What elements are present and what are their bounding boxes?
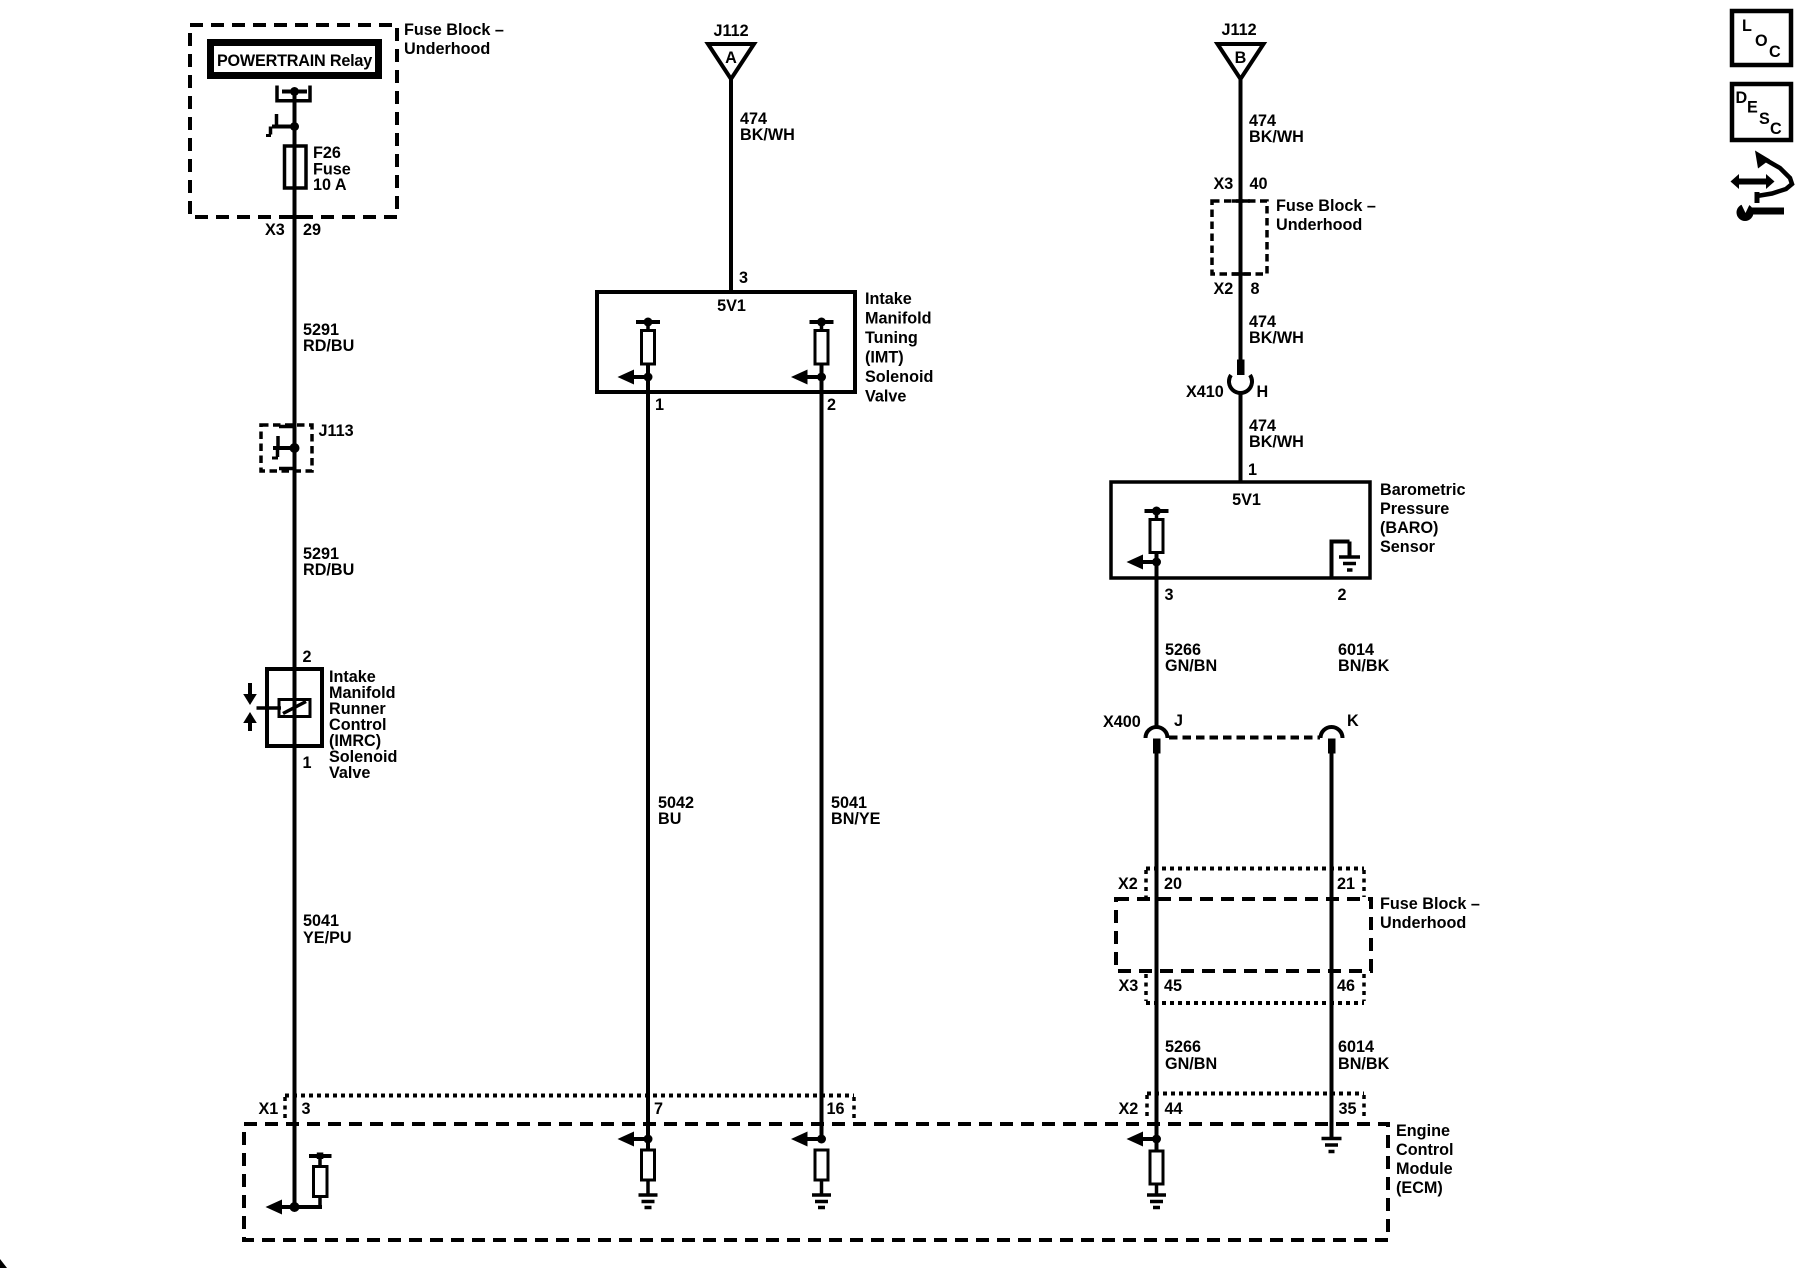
ECM pin3 resistor lower stub [318, 1197, 322, 1208]
svg-text:X2: X2 [1214, 280, 1234, 298]
svg-text:BN/YE: BN/YE [831, 810, 881, 828]
dotted stub ECM left row left [283, 1097, 287, 1120]
svg-text:1: 1 [1248, 461, 1257, 479]
svg-text:L: L [1742, 17, 1752, 35]
fuse block underhood dashed box (right small) [1212, 201, 1267, 274]
ECM pin3 pullup T-bar [309, 1153, 332, 1169]
ECM pin44 signal arrow [1127, 1132, 1162, 1147]
wire 474 BK/WH column A [729, 79, 733, 292]
svg-text:X3: X3 [1214, 175, 1234, 193]
IMT right internal supply T-bar [810, 318, 834, 333]
IMT left internal supply T-bar [636, 318, 660, 333]
svg-text:1: 1 [655, 396, 664, 414]
svg-text:16: 16 [827, 1100, 845, 1118]
dotted stub right upper [1362, 870, 1366, 897]
wire label 5266 GN/BN (lower) [1165, 1038, 1217, 1073]
svg-text:H: H [1257, 383, 1269, 401]
label Intake Manifold Tuning (IMT) Solenoid Valve [865, 290, 933, 406]
X400 harness dashed link J-K [1169, 736, 1320, 740]
ECM pin44 resistor [1150, 1151, 1163, 1184]
label Barometric Pressure (BARO) Sensor [1380, 481, 1465, 556]
svg-text:X400: X400 [1103, 713, 1141, 731]
wire label 6014 BN/BK (lower) [1338, 1038, 1390, 1073]
wire BARO pin3 down to X400 J [1155, 551, 1159, 727]
tick at J113 bottom crossing [279, 467, 296, 471]
wire label 5041 BN/YE [831, 794, 881, 828]
svg-text:D: D [1736, 89, 1748, 107]
relay K1 POWERTRAIN Relay box [211, 43, 379, 76]
svg-text:Pressure: Pressure [1380, 500, 1449, 518]
BARO internal ground symbol [1339, 557, 1360, 570]
svg-text:5041: 5041 [303, 912, 339, 930]
wire label 474 BK/WH (B lower) [1249, 417, 1304, 451]
label F26 Fuse 10 A [313, 144, 351, 194]
X400 J male pin [1153, 739, 1161, 754]
terminal hook symbol below relay [266, 114, 299, 136]
wire 5291 left column vertical [293, 92, 297, 1208]
ECM pin7 resistor [642, 1150, 655, 1180]
ECM dotted pin row right [1147, 1092, 1364, 1096]
labels X400 J K [1103, 712, 1359, 731]
svg-text:C: C [1769, 43, 1781, 61]
relay contact bracket [277, 86, 310, 101]
svg-text:X3: X3 [265, 221, 285, 239]
wire label 474 BK/WH (B upper) [1249, 112, 1304, 146]
dotted stub left lower [1144, 974, 1148, 1001]
tick at small fuse box top crossing [1232, 199, 1250, 203]
svg-text:7: 7 [654, 1100, 663, 1118]
IMT right signal arrow and junction [791, 370, 826, 385]
ECM pin16 signal arrow [791, 1132, 826, 1147]
svg-text:X1: X1 [259, 1100, 279, 1118]
svg-text:J112: J112 [1222, 21, 1257, 39]
fuse block underhood dashed box (top left) [190, 25, 397, 217]
wire label 474 BK/WH (column A) [740, 110, 795, 144]
svg-text:5V1: 5V1 [717, 297, 746, 315]
connector labels X3 29 [265, 221, 321, 239]
svg-text:1: 1 [303, 754, 312, 772]
tick at small fuse box bottom crossing [1232, 272, 1250, 276]
BARO internal resistor [1150, 520, 1163, 553]
svg-text:46: 46 [1337, 977, 1355, 995]
svg-text:RD/BU: RD/BU [303, 337, 354, 355]
svg-text:Underhood: Underhood [1380, 914, 1466, 932]
svg-text:Intake: Intake [865, 290, 912, 308]
svg-text:Solenoid: Solenoid [865, 368, 933, 386]
svg-text:5V1: 5V1 [1232, 491, 1261, 509]
vehicle navigation icon double arrow [1731, 174, 1775, 189]
svg-text:C: C [1770, 120, 1782, 138]
BARO sensor box 5V1 [1111, 482, 1370, 578]
svg-text:Fuse Block –: Fuse Block – [1276, 197, 1376, 215]
inline connector X400 K dome [1321, 727, 1343, 738]
svg-text:Module: Module [1396, 1160, 1453, 1178]
BARO pin2 internal ground elbow [1330, 540, 1350, 579]
IMT left resistor [642, 331, 655, 365]
IMT solenoid valve box 5V1 [597, 292, 855, 392]
IMRC solenoid diagonal [283, 702, 306, 714]
svg-text:3: 3 [739, 269, 748, 287]
tick at X3-29 wire crossing [287, 215, 303, 219]
svg-text:Underhood: Underhood [404, 40, 490, 58]
inline connector X400 J dome [1146, 727, 1168, 738]
svg-text:35: 35 [1339, 1100, 1357, 1118]
svg-text:Control: Control [1396, 1141, 1454, 1159]
svg-text:2: 2 [827, 396, 836, 414]
wire IMT pin1 down to ECM pin7 [646, 362, 650, 1151]
ECM pin7 ground [639, 1180, 658, 1208]
svg-text:Manifold: Manifold [865, 310, 932, 328]
svg-text:Fuse Block –: Fuse Block – [404, 21, 504, 39]
BARO internal supply T-bar [1145, 507, 1169, 522]
right fuse block dotted pin band bottom [1146, 1001, 1364, 1005]
wire label 5042 BU [658, 794, 694, 828]
ECM pin35 ground [1322, 1139, 1342, 1152]
wire 474 BK/WH below X410 [1239, 392, 1243, 483]
wire 474 BK/WH column B upper [1239, 79, 1243, 360]
svg-text:X2: X2 [1118, 875, 1138, 893]
inline connector X410 female cup [1229, 375, 1252, 393]
svg-text:RD/BU: RD/BU [303, 561, 354, 579]
splice pack J112 triangle A [708, 44, 754, 79]
connector labels X1 3 7 16 [259, 1100, 845, 1118]
svg-text:(BARO): (BARO) [1380, 519, 1438, 537]
right fuse block dotted pin band top [1146, 867, 1364, 871]
connector labels X2 44 35 [1119, 1100, 1357, 1118]
svg-text:Tuning: Tuning [865, 329, 918, 347]
connector labels X3 45 46 [1119, 977, 1356, 995]
svg-text:10 A: 10 A [313, 176, 347, 194]
svg-text:(IMT): (IMT) [865, 349, 904, 367]
vehicle navigation icon outline [1755, 151, 1792, 204]
LOC icon box [1732, 11, 1791, 65]
svg-text:POWERTRAIN Relay: POWERTRAIN Relay [217, 52, 372, 70]
ECM pin3 resistor [314, 1167, 328, 1197]
svg-text:45: 45 [1164, 977, 1182, 995]
connector labels X2 20 21 [1118, 875, 1355, 893]
IMT left signal arrow and junction [618, 370, 653, 385]
IMRC left stub wire [257, 706, 282, 710]
svg-text:3: 3 [1165, 586, 1174, 604]
svg-text:29: 29 [303, 221, 321, 239]
DESC icon box [1732, 84, 1791, 140]
svg-text:A: A [725, 49, 737, 67]
inline connector X410 male pin [1237, 360, 1245, 376]
svg-text:Underhood: Underhood [1276, 216, 1362, 234]
svg-text:K: K [1347, 712, 1359, 730]
svg-text:YE/PU: YE/PU [303, 929, 352, 947]
IMRC valve double arrow [243, 683, 257, 731]
IMRC solenoid coil rect [279, 700, 310, 717]
svg-text:BK/WH: BK/WH [1249, 433, 1304, 451]
svg-text:Barometric: Barometric [1380, 481, 1465, 499]
wrench icon [1737, 201, 1785, 222]
ECM pin7 signal arrow [618, 1132, 653, 1147]
svg-text:GN/BN: GN/BN [1165, 1055, 1217, 1073]
connector labels X2 8 [1214, 280, 1260, 298]
wire label 6014 BN/BK (upper) [1338, 641, 1390, 675]
svg-text:8: 8 [1251, 280, 1260, 298]
ECM pin16 ground [812, 1180, 831, 1208]
X400 K male pin [1328, 739, 1336, 754]
svg-text:BU: BU [658, 810, 681, 828]
svg-text:BK/WH: BK/WH [1249, 128, 1304, 146]
svg-text:BN/BK: BN/BK [1338, 657, 1390, 675]
splice J113 terminal hook and junction dot [272, 436, 300, 458]
dotted stub left upper [1144, 870, 1148, 897]
svg-text:Sensor: Sensor [1380, 538, 1436, 556]
svg-text:X3: X3 [1119, 977, 1139, 995]
ECM pin44 ground [1147, 1184, 1166, 1208]
ECM pin16 resistor [815, 1150, 828, 1180]
svg-text:Valve: Valve [865, 388, 906, 406]
svg-text:2: 2 [1338, 586, 1347, 604]
svg-text:F26: F26 [313, 144, 341, 162]
splice pack J112 triangle B [1218, 44, 1264, 79]
svg-text:3: 3 [302, 1100, 311, 1118]
svg-text:J112: J112 [714, 22, 749, 40]
svg-text:B: B [1235, 49, 1247, 67]
svg-text:(ECM): (ECM) [1396, 1179, 1443, 1197]
dotted stub ECM right row left [1145, 1095, 1149, 1119]
wire through IMRC [293, 669, 297, 746]
svg-text:Valve: Valve [329, 764, 370, 782]
wire 5266 below X400 J [1155, 753, 1159, 1151]
wire label 5041 YE/PU [303, 912, 352, 947]
dotted stub ECM right row right [1362, 1095, 1366, 1119]
svg-text:E: E [1747, 99, 1758, 117]
relay contact T-bar and junction [282, 87, 307, 96]
fuse block underhood dashed box (right lower) [1116, 899, 1371, 971]
label Fuse Block - Underhood (right lower) [1380, 895, 1480, 932]
svg-text:21: 21 [1337, 875, 1355, 893]
svg-text:40: 40 [1250, 175, 1268, 193]
dotted stub ECM left row right [852, 1097, 856, 1120]
fuse F26 10A body [285, 146, 307, 188]
svg-text:5266: 5266 [1165, 1038, 1201, 1056]
label Intake Manifold Runner Control (IMRC) Solenoid Valve [329, 668, 397, 782]
ECM dashed box [244, 1124, 1388, 1240]
tick at J113 top crossing [279, 425, 296, 429]
svg-text:X410: X410 [1186, 383, 1224, 401]
svg-text:BK/WH: BK/WH [740, 126, 795, 144]
labels X410 H [1186, 383, 1268, 401]
svg-text:GN/BN: GN/BN [1165, 657, 1217, 675]
ECM pin3 signal arrow [266, 1200, 323, 1215]
IMRC solenoid valve box [267, 669, 322, 746]
svg-text:BN/BK: BN/BK [1338, 1055, 1390, 1073]
ECM dotted pin row left [285, 1094, 854, 1098]
svg-text:2: 2 [303, 648, 312, 666]
label Engine Control Module (ECM) [1396, 1122, 1454, 1197]
wire 6014 below X400 K [1330, 753, 1334, 1139]
svg-text:X2: X2 [1119, 1100, 1139, 1118]
svg-text:J113: J113 [319, 422, 354, 440]
BARO signal arrow and junction [1127, 555, 1162, 570]
svg-text:J: J [1174, 712, 1183, 730]
label Fuse Block - Underhood (top left) [404, 21, 504, 58]
svg-text:BK/WH: BK/WH [1249, 329, 1304, 347]
wire IMT pin2 down to ECM pin16 [820, 362, 824, 1139]
IMT right resistor [815, 331, 828, 365]
splice J113 dashed box [261, 425, 312, 471]
page edge mark bottom left [0, 1259, 7, 1268]
wire label 5266 GN/BN (upper) [1165, 641, 1217, 675]
svg-text:Engine: Engine [1396, 1122, 1450, 1140]
wire label 5291 RD/BU (upper) [303, 321, 354, 355]
dotted stub right lower [1362, 974, 1366, 1001]
svg-text:44: 44 [1165, 1100, 1183, 1118]
svg-text:O: O [1755, 32, 1768, 50]
svg-text:20: 20 [1164, 875, 1182, 893]
svg-text:S: S [1759, 110, 1770, 128]
wire label 5291 RD/BU (lower) [303, 545, 354, 579]
connector labels X3 40 [1214, 175, 1268, 193]
label Fuse Block - Underhood (right mid) [1276, 197, 1376, 234]
svg-text:6014: 6014 [1338, 1038, 1374, 1056]
svg-text:Fuse Block –: Fuse Block – [1380, 895, 1480, 913]
wire label 474 BK/WH (B mid) [1249, 313, 1304, 347]
